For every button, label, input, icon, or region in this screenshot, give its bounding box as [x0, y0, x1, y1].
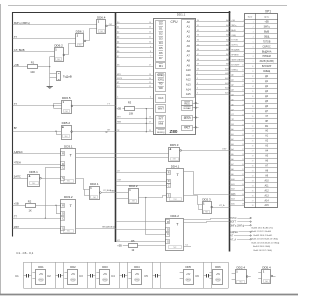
wire +5V to R2: [13, 205, 26, 207]
wire table row line: [245, 153, 278, 155]
wire DD3.1 Q2 to DD2.1: [76, 179, 90, 190]
svg-text:ЧТ_А: ЧТ_А: [230, 238, 236, 241]
ic power block DD3: [96, 265, 109, 284]
svg-text:ЗМГц: ЗМГц: [264, 26, 271, 28]
wire DD2.2 out to DD4.1 S: [138, 196, 166, 198]
svg-text:+5V: +5V: [135, 274, 140, 276]
svg-text:БЛОКИР: БЛОКИР: [231, 65, 240, 67]
svg-text:ГОТОВ: ГОТОВ: [263, 41, 271, 43]
svg-text:А9: А9: [226, 63, 228, 66]
svg-text:С1: С1: [15, 274, 19, 278]
svg-text:GND: GND: [39, 280, 44, 282]
pin 26 А3: [241, 144, 268, 148]
svg-text:A3: A3: [187, 34, 191, 38]
svg-text:1: 1: [243, 20, 244, 22]
svg-text:С6: С6: [195, 274, 199, 278]
wire A14: [195, 87, 230, 90]
gate DD5.3: [169, 143, 182, 162]
node junction A: [49, 66, 50, 67]
wire bus to pin: [230, 195, 242, 197]
wire bus to pin: [230, 95, 242, 97]
svg-text:29: 29: [242, 159, 244, 161]
svg-text:DD4: DD4: [134, 265, 140, 269]
svg-text:15: 15: [252, 91, 254, 93]
wire DD3.1 Q to DD5.3: [76, 153, 169, 155]
svg-text:38: 38: [242, 204, 244, 206]
wire DD2.1 out to bus: [101, 192, 116, 194]
wire bus to pin: [230, 175, 242, 177]
svg-text:А5: А5: [226, 43, 228, 46]
svg-text:А0: А0: [226, 19, 228, 22]
svg-text:D: D: [62, 213, 64, 216]
svg-text:7: 7: [150, 56, 151, 58]
svg-text:А10: А10: [225, 67, 228, 70]
svg-text:RFSH: RFSH: [184, 117, 191, 120]
wire DD5.4 inputs: [258, 272, 262, 274]
svg-text:25: 25: [252, 141, 254, 143]
node junction D: [45, 218, 46, 219]
svg-text:ЛА3: ЛА3: [93, 196, 96, 199]
wire DD4.2 out2 to bus: [184, 222, 230, 223]
svg-text:DD5.4: DD5.4: [262, 265, 271, 269]
svg-text:30: 30: [242, 164, 244, 166]
svg-text:37: 37: [197, 54, 199, 56]
node VOGT note label: [230, 221, 251, 224]
svg-text:ЧТ_А: ЧТ_А: [219, 204, 225, 207]
node junction E: [55, 205, 56, 206]
svg-text:1К: 1К: [131, 248, 134, 252]
wire bus to pin: [230, 51, 242, 53]
svg-text:4: 4: [197, 88, 198, 90]
svg-text:DD2.3: DD2.3: [202, 198, 211, 202]
wire DD6.5 out to bus: [72, 105, 116, 107]
pin 18 Д6: [241, 104, 268, 108]
wire table row line: [245, 48, 278, 50]
svg-text:ВыВ6 DD1 ВыВ6 (7н): ВыВ6 DD1 ВыВ6 (7н): [252, 227, 274, 229]
svg-text:М1: М1: [159, 64, 163, 68]
pin BUSRQ: [156, 129, 166, 135]
svg-text:+5V: +5V: [216, 274, 221, 276]
svg-text:10: 10: [242, 65, 244, 67]
svg-text:5: 5: [243, 40, 244, 42]
svg-text:GND: GND: [186, 280, 191, 282]
capacitor C2: [47, 274, 63, 278]
resistor R3: [125, 101, 135, 116]
svg-text:16: 16: [149, 117, 151, 119]
wire table row line: [245, 108, 278, 110]
svg-text:А13: А13: [225, 82, 228, 85]
wire table row line: [245, 93, 278, 95]
wire A10: [195, 67, 230, 70]
wire С: [116, 96, 153, 98]
svg-text:A11: A11: [186, 73, 191, 77]
svg-text:ЛА3: ЛА3: [78, 43, 81, 46]
svg-text:37: 37: [242, 199, 244, 201]
wire bus to pin: [230, 71, 242, 73]
connector XP1: [245, 9, 279, 207]
pin 14 Д2: [241, 85, 268, 89]
svg-text:MREQ: MREQ: [157, 74, 164, 77]
svg-text:Д7: Д7: [117, 56, 119, 58]
svg-text:A12: A12: [186, 78, 191, 82]
ground: [47, 87, 53, 89]
svg-text:34: 34: [242, 184, 244, 186]
flip-flop DD4.1: [167, 165, 184, 202]
svg-text:Гн4: Гн4: [185, 244, 188, 246]
svg-text:24: 24: [242, 134, 244, 136]
wire bus to pin: [230, 160, 242, 162]
svg-text:27: 27: [242, 149, 244, 151]
wire bus to pin: [230, 125, 242, 127]
svg-text:27: 27: [149, 65, 151, 67]
wire bus to pin: [230, 135, 242, 137]
svg-text:R1: R1: [31, 61, 35, 65]
svg-text:А12: А12: [225, 77, 228, 80]
svg-text:20: 20: [252, 116, 254, 118]
svg-text:WAIT: WAIT: [158, 108, 165, 111]
svg-text:ЗАХВ (ЗАХВ): ЗАХВ (ЗАХВ): [231, 59, 244, 62]
svg-text:D5: D5: [159, 46, 163, 50]
svg-text:DD5.3: DD5.3: [170, 143, 179, 147]
svg-text:28: 28: [242, 154, 244, 156]
wire A2: [195, 29, 230, 32]
svg-text:A14: A14: [186, 87, 191, 91]
svg-text:А14: А14: [265, 199, 270, 202]
wire DD4.2 bottom out: [184, 246, 192, 248]
svg-text:37: 37: [252, 200, 254, 202]
wire bus to pin: [230, 170, 242, 172]
pin stub not connected: [193, 117, 199, 119]
svg-text:2: 2: [243, 25, 244, 27]
svg-text:D3: D3: [159, 36, 163, 40]
svg-text:+5V: +5V: [39, 274, 44, 276]
svg-text:25: 25: [242, 139, 244, 141]
svg-text:16: 16: [252, 96, 254, 98]
pin 13 Д1: [241, 80, 268, 84]
svg-text:ПР: ПР: [105, 132, 109, 134]
wire bus to pin: [230, 91, 242, 93]
wire DD6.4 out to bus: [107, 25, 116, 27]
wire DD5.4 out: [272, 276, 276, 278]
svg-text:D6: D6: [159, 51, 163, 55]
wire cap segment verticals: [55, 262, 57, 288]
svg-text:DD5.2: DD5.2: [62, 121, 71, 125]
wire A1: [195, 24, 230, 27]
wire bus to pin: [230, 140, 242, 142]
wire table row line: [245, 158, 278, 160]
svg-text:12: 12: [242, 75, 244, 77]
node CHT_A note label: [230, 238, 251, 241]
pin 9 ЗАХВ (ЗАХВ): [241, 60, 274, 64]
wire bus to pin: [230, 115, 242, 117]
pin 32 А9: [241, 174, 268, 178]
wire pullup vertical: [146, 109, 148, 132]
svg-text:17: 17: [252, 101, 254, 103]
wire cap segment verticals: [119, 262, 121, 288]
wire table row line: [245, 167, 278, 169]
svg-text:38: 38: [252, 205, 254, 207]
wire ИНТ: [116, 117, 153, 119]
svg-text:ВГ: ВГ: [14, 126, 18, 130]
wire R3 to WAIT: [135, 108, 153, 110]
wire ЗП: [116, 86, 153, 88]
wire junction vertical: [49, 57, 51, 87]
svg-text:DD5: DD5: [186, 265, 192, 269]
node PUSK note label: [230, 217, 251, 220]
wire bus to pin: [230, 31, 242, 33]
wire table row line: [245, 43, 278, 45]
svg-text:DD3.2: DD3.2: [64, 195, 73, 199]
svg-text:A6: A6: [187, 49, 191, 53]
pin 15 Д3: [241, 90, 268, 94]
gate DD6.2: [54, 44, 64, 62]
wire DD2.4 out: [247, 276, 251, 278]
svg-text:1: 1: [253, 21, 254, 23]
wire cap segment verticals: [152, 262, 154, 288]
wire DD6.5 input split: [53, 103, 55, 108]
pin RES: [182, 101, 193, 106]
pin HALT: [182, 126, 193, 131]
pin 2 ЗМГц: [241, 25, 270, 29]
svg-text:ПРИЕМ: ПРИЕМ: [262, 56, 270, 58]
gate DD5.2: [62, 121, 73, 140]
wire bus to pin: [230, 120, 242, 122]
svg-text:32: 32: [252, 175, 254, 177]
svg-text:С2: С2: [47, 274, 51, 278]
wire МРК: [116, 74, 153, 76]
wire cap row bottom rail: [23, 288, 228, 290]
resistor R2: [26, 199, 36, 212]
capacitor C5: [144, 274, 160, 278]
flip-flop DD3.2: [61, 195, 76, 233]
svg-text:ПРИЕМ: ПРИЕМ: [231, 55, 239, 57]
svg-text:ЗМГц (ЗМГц): ЗМГц (ЗМГц): [230, 225, 244, 227]
wire table row line: [245, 33, 278, 35]
pin 29 А6: [241, 159, 268, 163]
wire DD2.3 in2: [199, 209, 203, 211]
wire A11: [195, 72, 230, 75]
pin 38 А15: [241, 204, 269, 208]
svg-text:ВЫВ: ВЫВ: [231, 30, 236, 32]
wire table row line: [245, 28, 278, 30]
svg-text:2: 2: [197, 78, 198, 80]
svg-text:А15: А15: [265, 204, 270, 207]
svg-text:R: R: [168, 171, 170, 174]
wire bus to pin: [230, 130, 242, 132]
svg-text:R2: R2: [28, 199, 32, 203]
wire right vertical bus: [229, 11, 231, 252]
svg-text:13: 13: [252, 81, 254, 83]
svg-text:21: 21: [242, 119, 244, 121]
svg-text:23: 23: [252, 131, 254, 133]
pin 22 М1: [241, 124, 269, 128]
svg-text:24: 24: [252, 136, 254, 138]
wire junction to DD6.2 input: [50, 56, 55, 58]
svg-text:22: 22: [242, 124, 244, 126]
svg-text:30: 30: [252, 165, 254, 167]
svg-text:А3: А3: [226, 34, 228, 37]
svg-text:Z80: Z80: [170, 129, 178, 134]
wire НМИ: [116, 122, 153, 124]
svg-text:Д0: Д0: [117, 22, 119, 24]
node ADRES note label: [230, 231, 251, 234]
wire bus to pin: [230, 61, 242, 63]
svg-text:22: 22: [149, 86, 151, 88]
wire cap row top rail: [23, 262, 228, 264]
svg-text:13: 13: [149, 27, 151, 29]
svg-text:5: 5: [253, 41, 254, 43]
svg-text:ВЫДАЧА: ВЫДАЧА: [262, 50, 272, 53]
wire table row line: [245, 177, 278, 179]
svg-text:IORQ: IORQ: [158, 78, 164, 81]
svg-text:RD: RD: [159, 83, 163, 86]
svg-text:С4: С4: [111, 274, 115, 278]
svg-text:39: 39: [197, 64, 199, 66]
svg-text:20: 20: [242, 114, 244, 116]
wire bus to pin: [230, 41, 242, 43]
svg-text:8: 8: [253, 56, 254, 58]
svg-text:2: 2: [253, 26, 254, 28]
svg-text:+5V: +5V: [103, 274, 108, 276]
wire A7: [195, 53, 230, 56]
pin 34 А11: [241, 184, 269, 188]
svg-text:38: 38: [197, 59, 199, 61]
svg-text:GND: GND: [216, 280, 221, 282]
wire table row line: [245, 192, 278, 194]
wire table row line: [245, 38, 278, 40]
svg-text:ЛА3: ЛА3: [65, 110, 68, 113]
wire DD5.2 input split: [56, 131, 58, 134]
capacitor C3: [79, 274, 95, 278]
wire table row line: [245, 68, 278, 70]
wire DD2.1 input2: [85, 189, 90, 195]
ic Z80 CPU DD1.1: [154, 12, 196, 134]
svg-text:WR: WR: [159, 87, 163, 90]
pin 31 А8: [241, 169, 268, 173]
svg-text:Д6: Д6: [117, 51, 119, 53]
ic power block DD4: [128, 265, 141, 284]
svg-text:A2: A2: [187, 30, 191, 34]
svg-text:A15: A15: [186, 92, 191, 96]
wire bus to pin: [230, 21, 242, 23]
wire GT to DD6.1: [13, 38, 76, 40]
svg-text:ПВВ: ПВВ: [110, 191, 115, 193]
wire IZT to DD3.2 S: [13, 228, 61, 230]
svg-text:A7: A7: [187, 54, 191, 58]
pin stub not connected: [193, 107, 199, 109]
wire +5V to R3: [123, 108, 125, 110]
svg-text:15: 15: [242, 90, 244, 92]
wire A5: [195, 43, 230, 46]
svg-text:14: 14: [149, 22, 151, 24]
svg-text:&: &: [62, 126, 64, 129]
svg-text:DD5.1: DD5.1: [29, 170, 38, 174]
wire bus to pin: [230, 81, 242, 83]
svg-text:34: 34: [252, 185, 254, 187]
svg-text:А11: А11: [225, 72, 228, 75]
svg-text:ПУСК: ПУСК: [230, 218, 237, 220]
wire A12: [195, 77, 230, 80]
svg-text:ОБЩ: ОБЩ: [264, 36, 270, 38]
wire DD4.1 out right: [184, 172, 230, 195]
ic power block DD6: [209, 265, 222, 284]
svg-text:A4: A4: [187, 39, 191, 43]
wire table row line: [245, 73, 278, 75]
svg-text:3: 3: [243, 30, 244, 32]
wire cap segment verticals: [87, 262, 89, 288]
svg-text:19: 19: [252, 111, 254, 113]
pin 20 ЧТ: [241, 114, 268, 118]
svg-text:ВыВ.10 DD7 ОБЩ: ВыВ.10 DD7 ОБЩ: [254, 250, 272, 252]
wire bus to pin: [230, 76, 242, 78]
svg-text:11: 11: [252, 71, 254, 73]
wire table row line: [245, 103, 278, 105]
svg-text:DD2.2: DD2.2: [129, 184, 138, 188]
svg-text:DD2.1: DD2.1: [90, 182, 99, 186]
wire DD2.3 out to bus: [212, 207, 230, 209]
svg-text:23: 23: [242, 129, 244, 131]
svg-text:R3: R3: [128, 101, 132, 105]
svg-text:Д1: Д1: [117, 27, 119, 29]
wire cap segment verticals: [203, 262, 205, 288]
wire A15: [195, 92, 230, 95]
wire bus to pin: [230, 165, 242, 167]
svg-text:DD6.1: DD6.1: [76, 30, 85, 34]
wire frame left edge: [12, 12, 14, 237]
svg-text:12: 12: [149, 32, 151, 34]
wire DD5.1 out to DD3.1 S: [42, 178, 61, 180]
pin 11 СМЕЩ: [241, 70, 271, 74]
wire table row line: [245, 98, 278, 100]
wire D6: [116, 51, 153, 53]
svg-text:ВыВ.8 DD6 ОБЩ: ВыВ.8 DD6 ОБЩ: [253, 246, 270, 248]
svg-text:А7: А7: [226, 53, 228, 56]
svg-text:3: 3: [253, 31, 254, 33]
note text block: [252, 227, 280, 252]
svg-text:18: 18: [242, 104, 244, 106]
gate DD5.4: [262, 265, 273, 283]
pin stub not connected: [193, 127, 199, 129]
wire GT to DD3.1 C: [45, 167, 61, 169]
svg-text:INT: INT: [159, 116, 164, 120]
svg-text:ЛА3: ЛА3: [64, 135, 67, 138]
svg-text:С5: С5: [144, 274, 148, 278]
wire R2 to DD3.2 R: [36, 205, 61, 207]
svg-text:ВыВ.11 DD5 ВыВ.13 ОБЩ: ВыВ.11 DD5 ВыВ.13 ОБЩ: [252, 239, 278, 241]
svg-text:6: 6: [150, 96, 151, 98]
wire A4: [195, 38, 230, 41]
pin 4 ОБЩ: [241, 35, 270, 39]
svg-text:+5В: +5В: [117, 108, 122, 111]
svg-text:D4: D4: [159, 41, 163, 45]
svg-text:31: 31: [197, 25, 199, 27]
wire ПР: [116, 130, 153, 132]
wire bus to DD4.1 D: [116, 181, 167, 183]
wire table row line: [245, 143, 278, 145]
wire bus to pin: [230, 46, 242, 48]
wire D3: [116, 37, 153, 39]
pin 25 А2: [241, 139, 268, 143]
svg-text:ГТ: ГТ: [14, 215, 17, 219]
wire table row line: [245, 128, 278, 130]
wire bus to DD4.2 R: [116, 221, 166, 223]
svg-text:NMI: NMI: [158, 121, 163, 125]
svg-text:10К: 10К: [30, 70, 35, 74]
pin WAIT: [156, 105, 166, 113]
svg-text:DD2.4: DD2.4: [236, 266, 245, 270]
gate DD2.3: [202, 198, 212, 214]
svg-text:ТМ2: ТМ2: [67, 231, 70, 233]
